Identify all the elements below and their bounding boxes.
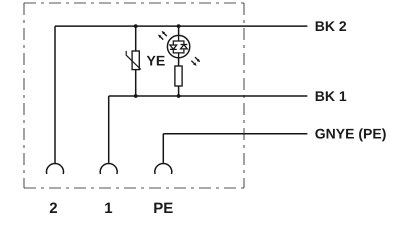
dash-dot demarcation border (bottom edge): [24, 187, 244, 189]
dash-dot demarcation border (left edge): [23, 3, 25, 188]
wire LED branch top: [178, 26, 180, 35]
resistor R1 body: [175, 66, 182, 86]
wire varistor branch top: [135, 26, 137, 51]
svg-text:1: 1: [104, 200, 112, 217]
svg-text:BK 1: BK 1: [315, 88, 347, 104]
svg-text:GNYE (PE): GNYE (PE): [315, 126, 387, 142]
dash-dot demarcation border (top edge): [24, 2, 244, 4]
LED light arrow upper-left outer: [161, 30, 168, 37]
svg-text:PE: PE: [153, 200, 173, 217]
varistor RU1 diagonal stroke: [126, 51, 141, 70]
wire from BK 2 down to contact 2: [54, 26, 56, 164]
socket contact PE: [155, 163, 172, 174]
LED light arrow lower-right inner: [190, 60, 197, 67]
socket contact 2: [46, 163, 63, 174]
svg-text:BK 2: BK 2: [315, 18, 347, 34]
wire LED to resistor: [178, 58, 180, 66]
LED inner bottom bar: [173, 53, 184, 58]
LED left diode (cathode down): [170, 41, 177, 53]
LED light arrow lower-right outer: [194, 56, 201, 63]
wire BK 2 horizontal: [55, 25, 307, 27]
varistor RU1 body: [132, 51, 139, 70]
svg-text:2: 2: [49, 200, 57, 217]
junction varistor / BK 2: [134, 24, 138, 28]
junction varistor / BK 1: [134, 94, 138, 98]
wire GNYE (PE) horizontal: [163, 133, 307, 135]
svg-text:YE: YE: [147, 53, 166, 69]
LED indicator circle: [167, 35, 189, 57]
wire resistor branch bottom: [178, 86, 180, 96]
wire from BK 1 down to contact 1: [108, 96, 110, 164]
LED inner top bar: [173, 36, 184, 41]
junction LED / BK 2: [177, 24, 181, 28]
wire varistor branch bottom: [135, 70, 137, 96]
wire from GNYE down to contact PE: [162, 134, 164, 164]
LED light arrow upper-left inner: [157, 33, 164, 40]
socket contact 1: [100, 163, 117, 174]
junction resistor / BK 1: [177, 94, 181, 98]
LED right diode (cathode up): [181, 41, 188, 53]
wire BK 1 horizontal: [109, 95, 308, 97]
dash-dot demarcation border (right edge): [243, 3, 245, 188]
